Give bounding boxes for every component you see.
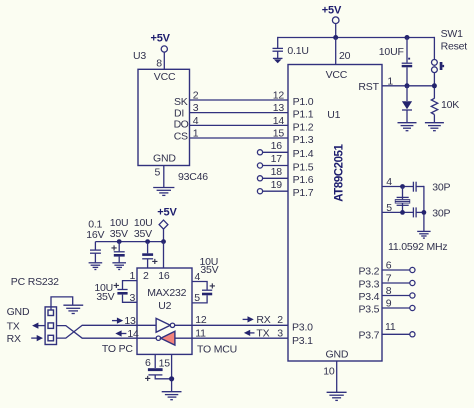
ground (c1) bbox=[112, 263, 126, 270]
ground (U2) bbox=[162, 392, 182, 400]
capacitor 10U/35V (pins 4-5) bbox=[192, 281, 215, 303]
pin 16 stub bbox=[257, 140, 288, 155]
ground (U3) bbox=[153, 188, 174, 196]
svg-text:PC RS232: PC RS232 bbox=[11, 276, 59, 288]
arrow RX in bbox=[31, 335, 43, 341]
node rail/c2 bbox=[145, 239, 150, 244]
node rail/10UF bbox=[405, 35, 410, 40]
U1 pin names P3.2-P3.5 bbox=[359, 265, 380, 315]
node RST/SW1 bbox=[432, 83, 437, 88]
svg-text:11: 11 bbox=[385, 321, 396, 333]
wire RX crossover bbox=[57, 325, 138, 338]
svg-text:12: 12 bbox=[195, 314, 207, 326]
svg-text:VCC: VCC bbox=[154, 71, 176, 83]
capacitor 0.1U bbox=[273, 48, 284, 51]
svg-text:P1.0: P1.0 bbox=[293, 96, 314, 108]
svg-text:CS: CS bbox=[174, 130, 188, 142]
svg-text:RX: RX bbox=[256, 314, 270, 326]
svg-text:10K: 10K bbox=[441, 99, 459, 111]
wire pin 15 down bbox=[171, 354, 173, 391]
capacitor (pin 6) polarized bbox=[145, 354, 172, 385]
svg-text:+: + bbox=[145, 373, 151, 385]
crystal X1 bbox=[395, 187, 410, 213]
svg-text:1: 1 bbox=[193, 128, 199, 140]
node pin15/cap/ground bbox=[169, 376, 174, 381]
resistor 10K bbox=[431, 98, 437, 114]
node rail/c1 bbox=[117, 239, 122, 244]
pin 19 stub bbox=[257, 179, 288, 194]
svg-text:16: 16 bbox=[158, 270, 170, 282]
svg-text:19: 19 bbox=[271, 179, 283, 191]
svg-text:15: 15 bbox=[273, 128, 285, 140]
svg-text:SK: SK bbox=[174, 96, 188, 108]
pin 9 stub bbox=[382, 298, 415, 311]
svg-text:6: 6 bbox=[145, 357, 151, 369]
connector pin square GND bbox=[48, 310, 54, 316]
svg-text:DI: DI bbox=[174, 107, 184, 119]
pin 17 stub bbox=[257, 153, 288, 168]
svg-text:15: 15 bbox=[159, 357, 171, 369]
wire +5V down bbox=[335, 24, 337, 38]
wire +5V to U3 pin 8 bbox=[163, 52, 165, 69]
svg-text:TO PC: TO PC bbox=[102, 343, 134, 355]
svg-text:0.1U: 0.1U bbox=[287, 45, 308, 57]
node caps/ground bbox=[422, 210, 427, 215]
svg-text:SW1: SW1 bbox=[441, 28, 464, 40]
svg-text:14: 14 bbox=[273, 115, 285, 127]
node rail/pin20 bbox=[333, 35, 338, 40]
wire VCC pin 20 bbox=[335, 38, 337, 65]
arrow out of pin 14 bbox=[115, 330, 126, 336]
capacitor 10U/35V (pins 1-3) bbox=[113, 280, 137, 302]
wire rail to SW1 bbox=[433, 37, 435, 59]
svg-text:35V: 35V bbox=[134, 228, 152, 240]
svg-text:U3: U3 bbox=[133, 50, 146, 62]
svg-text:P3.7: P3.7 bbox=[359, 330, 380, 342]
svg-text:P3.5: P3.5 bbox=[359, 303, 380, 315]
wire CS to P1.3 bbox=[190, 137, 289, 139]
ground (U1) bbox=[327, 392, 347, 400]
wire RST bbox=[382, 85, 434, 87]
svg-text:TO MCU: TO MCU bbox=[197, 343, 237, 355]
wire 10UF to RST bbox=[406, 67, 408, 86]
wire DI to P1.1 bbox=[190, 112, 289, 114]
svg-text:5: 5 bbox=[194, 292, 200, 304]
wire U1 GND lead bbox=[336, 361, 338, 392]
svg-text:RX: RX bbox=[7, 333, 21, 345]
U1 pin names P1.0-P1.3 bbox=[293, 96, 314, 146]
svg-text:18: 18 bbox=[271, 166, 283, 178]
wire U3 GND lead bbox=[163, 166, 165, 188]
svg-text:P3.4: P3.4 bbox=[359, 291, 380, 303]
ground (connector) bbox=[63, 305, 83, 313]
svg-text:P3.3: P3.3 bbox=[359, 278, 380, 290]
switch SW1 bbox=[432, 60, 445, 73]
svg-text:AT89C2051: AT89C2051 bbox=[333, 144, 345, 202]
wire pin12 to P3.0 bbox=[192, 324, 288, 326]
svg-text:3: 3 bbox=[193, 102, 199, 114]
power +5V (U3) bbox=[151, 33, 171, 52]
svg-text:6: 6 bbox=[386, 260, 392, 272]
arrow into pin 13 bbox=[112, 318, 123, 324]
ground (0.1 16V) bbox=[89, 263, 103, 270]
svg-text:U2: U2 bbox=[158, 300, 171, 312]
capacitor 10U/35V c1 polarized bbox=[111, 242, 125, 263]
wire 0.1U to ground bbox=[277, 51, 279, 58]
connector pin square RX bbox=[48, 335, 54, 341]
svg-text:35V: 35V bbox=[110, 228, 128, 240]
svg-text:+: + bbox=[111, 243, 117, 255]
arrow RX into P3.0 bbox=[243, 316, 254, 322]
svg-text:P1.6: P1.6 bbox=[293, 174, 314, 186]
svg-text:10UF: 10UF bbox=[379, 46, 404, 58]
svg-text:11.0592 MHz: 11.0592 MHz bbox=[388, 241, 447, 253]
pin 8 stub bbox=[382, 285, 415, 298]
svg-text:+5V: +5V bbox=[157, 207, 177, 219]
U1 pin names P3.0 P3.1 bbox=[292, 321, 313, 346]
node pin4/crystal bbox=[400, 184, 405, 189]
svg-text:35V: 35V bbox=[200, 264, 218, 276]
arrow TX out bbox=[32, 323, 45, 329]
svg-text:5: 5 bbox=[155, 167, 161, 179]
pin 11 stub bbox=[382, 321, 415, 337]
svg-text:16V: 16V bbox=[86, 229, 104, 241]
ground (diode) bbox=[398, 123, 417, 131]
svg-text:RST: RST bbox=[358, 81, 379, 93]
wire TX crossover bbox=[57, 326, 138, 339]
ground (0.1U, chassis style) bbox=[273, 58, 283, 63]
svg-text:17: 17 bbox=[271, 153, 283, 165]
svg-text:GND: GND bbox=[7, 306, 30, 318]
power +5V (MAX232) bbox=[157, 207, 177, 229]
svg-text:2: 2 bbox=[277, 314, 283, 326]
svg-text:MAX232: MAX232 bbox=[147, 287, 186, 299]
capacitor 0.1/16V bbox=[90, 242, 101, 263]
svg-text:30P: 30P bbox=[432, 182, 450, 194]
IC U2 MAX232 box bbox=[137, 268, 192, 354]
svg-text:8: 8 bbox=[156, 58, 162, 70]
wire top rail bbox=[278, 37, 435, 39]
buffer T1 (to PC line driver) bbox=[137, 318, 192, 332]
wire pin4 bbox=[382, 186, 413, 188]
svg-text:TX: TX bbox=[7, 321, 20, 333]
wire pin5 bbox=[382, 211, 413, 213]
svg-text:P1.5: P1.5 bbox=[293, 161, 314, 173]
node pin5/crystal bbox=[400, 210, 405, 215]
svg-text:7: 7 bbox=[386, 273, 392, 285]
svg-text:GND: GND bbox=[153, 153, 176, 165]
svg-text:3: 3 bbox=[130, 292, 136, 304]
svg-text:35V: 35V bbox=[96, 291, 114, 303]
capacitor 30P top bbox=[413, 182, 424, 192]
U1 pin names P1.4-P1.7 bbox=[293, 148, 314, 199]
pin 18 stub bbox=[257, 166, 288, 181]
wire SK to P1.0 bbox=[190, 99, 289, 101]
IC U3 93C46 box bbox=[138, 69, 190, 165]
wire pin 16 bbox=[163, 242, 165, 268]
svg-text:GND: GND bbox=[326, 348, 349, 360]
svg-text:+: + bbox=[152, 256, 158, 268]
wire cap rail bbox=[95, 241, 163, 243]
ground (30P caps) bbox=[417, 231, 430, 238]
svg-text:16: 16 bbox=[271, 140, 283, 152]
wire pin11 to P3.1 bbox=[192, 337, 288, 339]
capacitor 0.1U lead bbox=[277, 37, 279, 48]
buffer R1 (receiver, pink) bbox=[137, 331, 192, 345]
svg-text:20: 20 bbox=[339, 50, 351, 62]
IC U1 AT89C2051 box bbox=[288, 65, 382, 362]
svg-text:8: 8 bbox=[386, 285, 392, 297]
pin 7 stub bbox=[382, 273, 415, 286]
capacitor 10U/35V c2 polarized (to pin 2) bbox=[142, 242, 158, 268]
svg-text:30P: 30P bbox=[432, 208, 450, 220]
wire caps to ground bbox=[423, 186, 425, 231]
svg-text:P3.0: P3.0 bbox=[292, 321, 313, 333]
pin 6 stub bbox=[382, 260, 415, 273]
svg-text:+: + bbox=[209, 281, 215, 293]
connector J1 body bbox=[45, 307, 56, 345]
svg-text:P1.2: P1.2 bbox=[293, 121, 314, 133]
svg-text:P1.4: P1.4 bbox=[293, 148, 314, 160]
svg-text:P1.7: P1.7 bbox=[293, 187, 314, 199]
svg-text:Reset: Reset bbox=[441, 40, 468, 52]
node RST/diode bbox=[405, 83, 410, 88]
capacitor 10UF lead bbox=[406, 38, 408, 63]
svg-text:93C46: 93C46 bbox=[178, 171, 208, 183]
connector pin square TX bbox=[48, 323, 54, 329]
svg-text:+5V: +5V bbox=[322, 5, 342, 17]
svg-text:2: 2 bbox=[193, 90, 199, 102]
svg-text:+5V: +5V bbox=[151, 33, 171, 45]
svg-text:4: 4 bbox=[193, 115, 199, 127]
wire +5V diamond to rail bbox=[163, 229, 165, 242]
svg-text:P1.3: P1.3 bbox=[293, 134, 314, 146]
wire connector GND to ground bbox=[51, 297, 73, 310]
svg-text:11: 11 bbox=[195, 327, 206, 339]
capacitor 30P bottom bbox=[413, 207, 424, 217]
wire SW1 to RST rail bbox=[433, 73, 435, 99]
svg-text:P1.1: P1.1 bbox=[293, 109, 314, 121]
svg-text:P3.2: P3.2 bbox=[359, 265, 380, 277]
svg-text:13: 13 bbox=[273, 102, 285, 114]
svg-text:10: 10 bbox=[323, 365, 335, 377]
svg-text:2: 2 bbox=[143, 270, 149, 282]
ground (10K) bbox=[425, 123, 444, 131]
svg-text:DO: DO bbox=[174, 119, 189, 131]
diode D1 bbox=[402, 86, 412, 122]
svg-text:1: 1 bbox=[387, 75, 393, 87]
wire 10K to ground bbox=[433, 115, 435, 123]
node rail/pin16 bbox=[161, 239, 166, 244]
svg-text:VCC: VCC bbox=[326, 69, 348, 81]
power +5V (U1 rail) bbox=[322, 5, 342, 24]
svg-text:9: 9 bbox=[386, 298, 392, 310]
svg-text:U1: U1 bbox=[327, 109, 340, 121]
svg-text:P3.1: P3.1 bbox=[292, 335, 313, 347]
svg-text:12: 12 bbox=[273, 90, 285, 102]
wire DO to P1.2 bbox=[190, 124, 289, 126]
capacitor 10UF polarized bbox=[402, 58, 413, 68]
arrow TX out of P3.1 bbox=[244, 330, 255, 336]
